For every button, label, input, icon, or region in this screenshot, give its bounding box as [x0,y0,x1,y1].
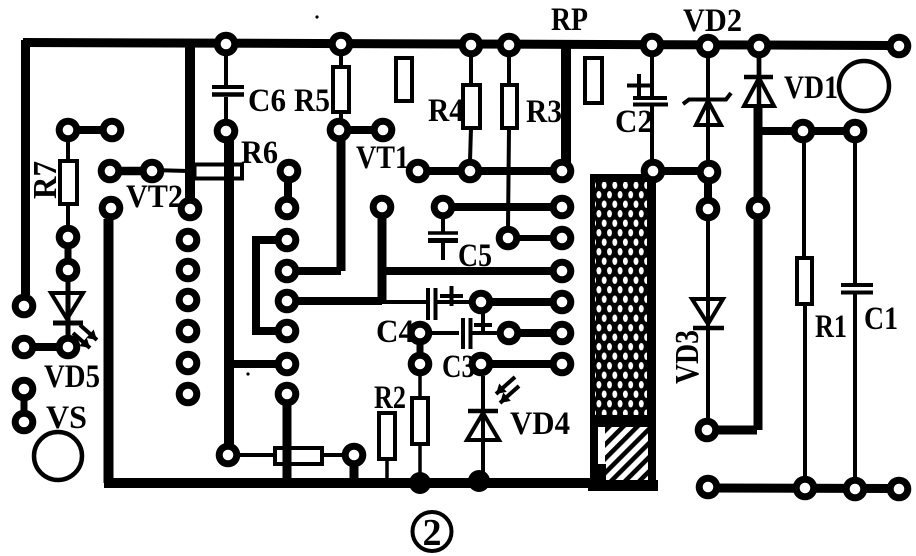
svg-text:C5: C5 [458,238,492,274]
svg-text:2: 2 [423,512,442,554]
svg-text:R6: R6 [241,135,278,171]
svg-text:R3: R3 [526,94,562,130]
svg-text:C3: C3 [442,349,475,385]
svg-text:R7: R7 [27,161,64,199]
svg-text:R5: R5 [294,83,330,119]
svg-text:C2: C2 [615,104,653,140]
svg-text:VT2: VT2 [126,179,183,215]
svg-text:C1: C1 [864,301,898,337]
svg-text:VT1: VT1 [356,140,409,176]
svg-text:VS: VS [46,400,87,436]
svg-text:VD4: VD4 [510,406,570,442]
svg-text:VD3: VD3 [669,330,706,384]
svg-text:C6: C6 [248,83,286,119]
svg-text:VD2: VD2 [683,3,742,39]
svg-text:VD1: VD1 [784,70,838,106]
svg-text:R1: R1 [815,309,847,345]
svg-text:R4: R4 [428,93,464,129]
svg-text:VD5: VD5 [44,359,100,395]
svg-text:RP: RP [551,2,588,38]
svg-text:C4: C4 [376,314,414,350]
svg-text:R2: R2 [374,380,406,416]
